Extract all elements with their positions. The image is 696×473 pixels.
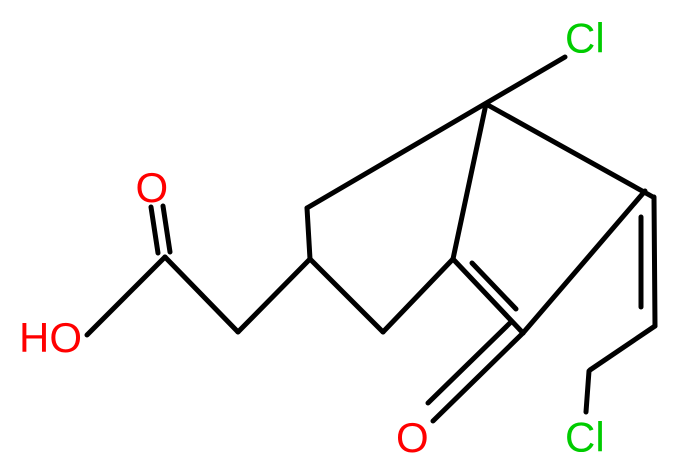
ketone C=O main line (433, 333, 523, 421)
svg-text:O: O (136, 164, 169, 211)
bond top Cl through ring vertex, long line (307, 57, 565, 208)
ketone C=O twin line (428, 322, 511, 403)
ring edge B (486, 104, 653, 197)
wire chain bond 2 (238, 259, 310, 332)
wire chain bond 5 (453, 259, 523, 333)
carboxyl C=O double bond line 1 (151, 207, 158, 253)
ring inner aromatic line (right) (639, 217, 644, 307)
svg-text:Cl: Cl (565, 15, 605, 62)
short link bond (307, 208, 310, 259)
wire chain bond 3 (310, 259, 383, 332)
bond stub to bottom Cl (586, 371, 589, 412)
ring edge D (590, 326, 655, 370)
ring edge G (523, 191, 645, 333)
wire chain bond 1 (165, 257, 238, 332)
inner aromatic line (lower left) (472, 263, 516, 309)
svg-text:O: O (396, 414, 429, 461)
svg-text:HO: HO (19, 314, 82, 361)
svg-text:Cl: Cl (565, 414, 605, 461)
carboxyl C=O double bond line 2 (163, 206, 170, 252)
ring right vertical edge (654, 197, 655, 326)
wire HO to carboxyl C (87, 257, 165, 335)
ring edge steep left (453, 104, 486, 259)
wire chain bond 4 (383, 259, 453, 332)
